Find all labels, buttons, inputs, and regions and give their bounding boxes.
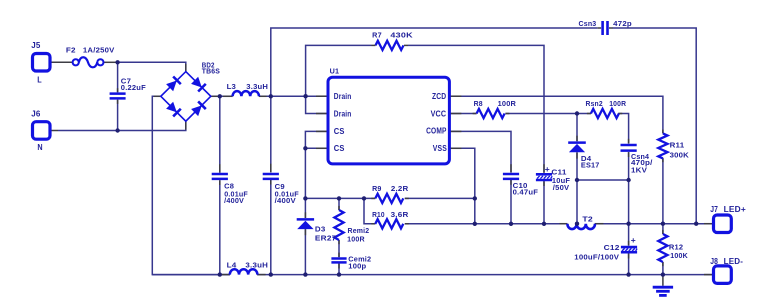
svg-text:J7: J7 <box>710 205 718 214</box>
resistor R7 <box>376 41 404 50</box>
svg-text:J6: J6 <box>31 110 41 119</box>
capacitor C12 polarized <box>621 247 637 252</box>
svg-text:0.47uF: 0.47uF <box>513 187 539 196</box>
wire C9 lower lead to bottom rail <box>270 179 272 274</box>
wire N net: J6 pin lead <box>50 130 58 132</box>
pin leads resistors <box>339 114 663 267</box>
node Cemi2 bottom rail <box>337 272 341 276</box>
wire D4 top lead <box>576 114 578 142</box>
svg-text:J8: J8 <box>710 257 718 266</box>
node C11 out rail <box>542 222 546 226</box>
wire C11 upper lead <box>543 114 545 173</box>
node R12 ground rail <box>661 272 665 276</box>
wire R7 right to C11 riser <box>408 45 544 113</box>
pin leads inductors and bridge <box>154 64 604 275</box>
connector J8 <box>714 266 732 284</box>
node VSS R9 <box>473 196 477 200</box>
svg-text:430K: 430K <box>390 30 413 39</box>
node Remi2 top <box>337 196 341 200</box>
svg-text:L: L <box>37 75 42 84</box>
capacitor Csn3 vertical plates <box>603 21 608 35</box>
op-amp U1 IC box <box>328 77 449 164</box>
wire COMP pin to C10 <box>449 131 511 172</box>
svg-text:C12: C12 <box>604 243 620 252</box>
wire Remi2 upper lead <box>338 198 340 210</box>
svg-text:VSS: VSS <box>433 144 448 153</box>
wire C7 bottom branch <box>117 100 119 131</box>
wire R8 to D4 node <box>505 113 591 115</box>
svg-text:N: N <box>37 143 42 152</box>
svg-text:LED-: LED- <box>724 257 744 266</box>
svg-text:CS: CS <box>334 144 345 153</box>
node C9 L4 bottom rail <box>269 272 273 276</box>
node CS pins tie <box>303 146 307 150</box>
connector J5 <box>33 54 51 72</box>
svg-text:100R: 100R <box>609 99 627 108</box>
wire C12 bottom lead <box>628 252 630 275</box>
wire C8 lower lead to bottom rail <box>219 180 221 274</box>
node T2 tap <box>575 222 579 226</box>
wire R11 bottom to out rail <box>662 158 664 224</box>
node VSS out rail <box>473 222 477 226</box>
wire R10 branch down <box>364 198 375 223</box>
svg-text:Drain: Drain <box>334 109 352 118</box>
pin leads U1 right <box>449 95 461 97</box>
wire VCC pin to R8 <box>449 113 476 115</box>
svg-text:ER27: ER27 <box>315 233 337 242</box>
wire out rail T2 to J7 <box>595 223 714 225</box>
svg-text:ZCD: ZCD <box>432 92 446 101</box>
resistor Remi2 vertical <box>334 210 343 240</box>
svg-text:100p: 100p <box>348 262 366 271</box>
node CS to R9 D3 <box>303 196 307 200</box>
connector J7 <box>714 215 732 233</box>
svg-text:2.2R: 2.2R <box>391 184 409 193</box>
svg-text:L4: L4 <box>227 260 237 269</box>
wire D3 upper lead <box>304 198 306 218</box>
wire VSS pin down to R9 node <box>449 148 474 224</box>
wire C10 bottom to out rail <box>510 180 512 224</box>
wire D4 anode down to out rail <box>576 152 578 223</box>
wire R12 bottom to bottom rail <box>662 262 664 275</box>
resistor R8 <box>477 109 505 118</box>
svg-text:Rsn2: Rsn2 <box>586 99 603 108</box>
svg-text:100uF/100V: 100uF/100V <box>574 252 619 261</box>
wire L net: J5 pin lead to fuse <box>50 61 73 63</box>
node C10 out rail <box>509 222 513 226</box>
resistor R11 vertical <box>658 133 667 158</box>
svg-text:/400V: /400V <box>275 196 296 205</box>
wire Cemi2 to bottom rail <box>338 263 340 274</box>
wire L net: fuse to junction <box>103 61 117 63</box>
wire N net: J6 to bridge AC bottom <box>58 121 186 130</box>
capacitor Cemi2 <box>331 259 346 263</box>
svg-text:1A/250V: 1A/250V <box>83 46 115 55</box>
capacitor Csn4 <box>621 145 637 151</box>
wire Csn4 bottom lead <box>628 152 630 180</box>
svg-text:U1: U1 <box>330 67 340 76</box>
svg-text:R9: R9 <box>372 184 382 193</box>
node D3 bottom rail <box>303 272 307 276</box>
wire bridge plus to L3 <box>211 95 233 97</box>
svg-text:R10: R10 <box>372 210 385 219</box>
capacitor C11 polarized <box>536 174 552 180</box>
wire Remi2 to Cemi2 <box>338 240 340 257</box>
wire CS pin 1 riser <box>305 131 328 198</box>
connector J6 <box>33 122 51 140</box>
svg-text:472p: 472p <box>613 19 632 28</box>
pin lead J7 <box>704 223 714 225</box>
svg-text:R8: R8 <box>474 99 483 108</box>
svg-text:100R: 100R <box>498 99 517 108</box>
svg-text:TB6S: TB6S <box>202 66 220 75</box>
wire CS pin 2 stub <box>305 147 328 149</box>
svg-text:CS: CS <box>334 127 345 136</box>
wire bridge minus to bottom rail <box>152 96 230 274</box>
capacitor C10 <box>503 174 519 179</box>
wire L net: junction to bridge AC top <box>118 62 186 71</box>
wire top rail after Csn3 to right drop <box>612 28 696 224</box>
resistor lead R7 <box>372 44 409 46</box>
wire L3 to Drain pin <box>259 95 328 97</box>
wire drain node to Drain pin 2 <box>306 96 328 113</box>
ground <box>653 287 673 295</box>
node C8 bottom rail <box>218 272 222 276</box>
svg-text:+: + <box>545 164 550 174</box>
wire C8 upper lead <box>219 96 221 172</box>
svg-text:300K: 300K <box>670 150 690 159</box>
node right drop out rail <box>694 222 698 226</box>
node C12 out rail <box>626 222 630 226</box>
svg-text:T2: T2 <box>582 214 593 223</box>
svg-text:VCC: VCC <box>431 109 447 118</box>
wire C9 upper lead <box>270 96 272 172</box>
svg-text:J5: J5 <box>31 41 41 50</box>
pin leads capacitors and diodes <box>118 28 629 269</box>
node D4 Csn4 link <box>575 178 579 182</box>
node bridge plus C8 <box>218 94 222 98</box>
svg-text:Drain: Drain <box>334 92 352 101</box>
wire D3 lower lead to bottom rail <box>304 229 306 275</box>
wire out rail R10 to T2 <box>475 223 568 225</box>
wire R12 top lead <box>662 224 664 234</box>
wire D4 anode to Csn4 bottom <box>577 179 629 181</box>
capacitor C9 <box>263 174 279 179</box>
svg-text:ES17: ES17 <box>581 160 600 169</box>
svg-text:+: + <box>631 235 636 245</box>
svg-text:/400V: /400V <box>224 196 244 205</box>
wire drain riser to top rail <box>271 28 598 96</box>
svg-text:R7: R7 <box>372 30 382 39</box>
wire CS net to R9 <box>305 197 375 199</box>
wire bottom rail L4 to J8 <box>257 274 713 276</box>
fuse F2 <box>73 57 104 67</box>
node drain R7 <box>303 94 307 98</box>
node R9 R10 split <box>362 196 366 200</box>
node drain C9 <box>269 94 273 98</box>
svg-text:100K: 100K <box>670 251 688 260</box>
svg-text:L3: L3 <box>227 82 237 91</box>
wire R7 branch from drain node <box>306 45 372 96</box>
svg-text:3.3uH: 3.3uH <box>245 260 268 269</box>
svg-text:0.22uF: 0.22uF <box>121 83 147 92</box>
wire ZCD to R11 riser <box>449 96 663 133</box>
wire Rsn2 right to Csn4 drop <box>618 114 628 144</box>
resistor Rsn2 <box>591 109 619 118</box>
wire R10 right to out rail <box>405 223 475 225</box>
node N C7 junction <box>115 128 119 132</box>
wire C7 top branch <box>117 62 119 92</box>
node C12 bottom rail <box>626 272 630 276</box>
svg-text:/50V: /50V <box>553 183 570 192</box>
svg-text:3.6R: 3.6R <box>391 210 410 219</box>
svg-text:COMP: COMP <box>426 126 447 135</box>
resistor R12 vertical <box>658 234 667 262</box>
wire Csn4 node down to out rail and C12 <box>628 180 630 245</box>
svg-text:R11: R11 <box>670 141 685 150</box>
wire ground lead <box>662 275 664 286</box>
capacitor C7 <box>110 94 126 99</box>
capacitor C8 <box>212 174 228 179</box>
svg-text:3.3uH: 3.3uH <box>246 82 268 91</box>
bridge rectifier BD2 <box>161 72 211 122</box>
diode D4 <box>568 143 586 153</box>
node D4 VCC line <box>575 111 579 115</box>
wire C11 lower lead to out rail <box>543 180 545 224</box>
node R11 R12 out rail <box>661 222 665 226</box>
node L fuse junction <box>115 60 119 64</box>
wire bottom rail left of L4 <box>152 274 230 276</box>
wire R9 right to VSS node <box>405 197 475 199</box>
resistor R10 <box>375 219 403 228</box>
svg-text:Csn3: Csn3 <box>579 19 597 28</box>
svg-text:1KV: 1KV <box>631 165 647 174</box>
resistor R9 <box>375 194 403 203</box>
pin lead J8 <box>704 274 714 276</box>
inductor L4 <box>230 269 258 274</box>
node Csn4 bottom <box>626 178 630 182</box>
inductor T2 <box>567 224 595 229</box>
svg-text:100R: 100R <box>347 235 365 244</box>
diode D3 <box>297 219 314 229</box>
svg-text:F2: F2 <box>66 46 76 55</box>
pin leads U1 left <box>316 95 328 97</box>
inductor L3 <box>233 91 259 96</box>
svg-text:LED+: LED+ <box>724 205 747 214</box>
